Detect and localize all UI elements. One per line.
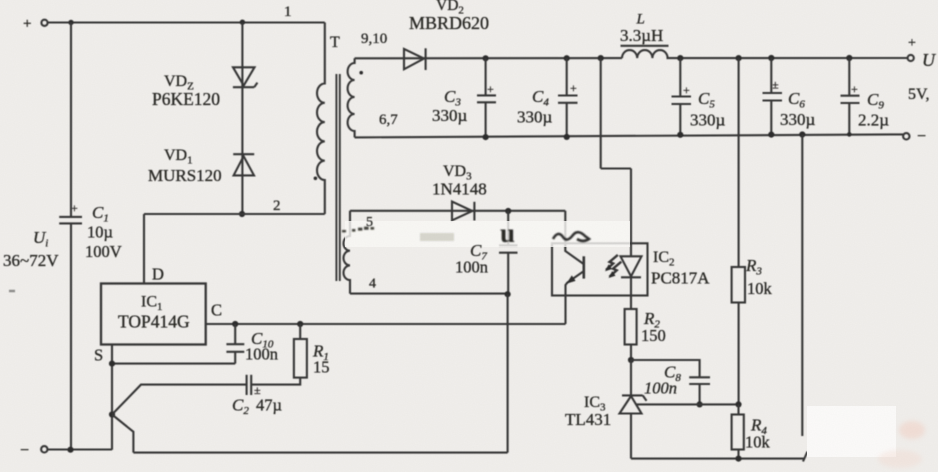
wire: aux bottom (pin 4): [350, 293, 508, 295]
wire: R3 upper vertical (crosses 0V rail): [738, 58, 740, 267]
watermark squiggle near opto: [553, 232, 589, 241]
wire: R4 bottom: [737, 450, 739, 459]
node: feedback tap on +5V rail: [598, 55, 604, 61]
wire: C pin line to opto emitter: [206, 323, 566, 325]
label underline for 3.3uH: [621, 45, 669, 47]
wire: top input rail: [48, 21, 325, 23]
watermark gray blob: [420, 233, 454, 241]
node: C7 bottom / aux return: [505, 291, 511, 297]
inductor L 3.3uH: [622, 50, 668, 58]
wire: output top rail right of L: [667, 57, 908, 59]
wire: R3 to divider node: [738, 303, 740, 405]
wire: node 2 horizontal: [144, 213, 325, 215]
wire: opto LED anode vertical: [630, 169, 632, 257]
terminal: + input circle: [41, 20, 47, 26]
capacitor C8: [689, 376, 710, 378]
zener diode VDZ P6KE120: [241, 23, 243, 155]
node: C5 bottom: [677, 132, 683, 138]
white patch bottom right: [807, 406, 896, 457]
wire: C2 to R1 bottom: [251, 378, 300, 385]
wire: diagonal to C2 line: [112, 385, 247, 415]
wire: feedback vertical from top rail: [600, 58, 602, 168]
watermark dots near pin 5: [342, 227, 374, 233]
node: C4 bottom: [564, 134, 570, 140]
resistor R1 15: [294, 339, 307, 378]
capacitor C3: [485, 58, 487, 95]
capacitor C2 plates: [246, 375, 248, 395]
node: divider node R3/R4: [735, 401, 741, 407]
junction tick at rail end: [803, 452, 808, 462]
wire: S pin vertical: [111, 345, 113, 450]
pink blob 2: [878, 450, 922, 468]
diode VD3 1N4148: [452, 202, 472, 221]
wire: node to C8 top: [631, 360, 700, 377]
wire: TL431 cathode vertical: [630, 360, 632, 395]
transformer secondary winding: [348, 58, 355, 137]
capacitor C7: [507, 211, 509, 245]
wire: TL431 anode to bottom rail: [630, 414, 632, 459]
wire: secondary ground bottom rail: [631, 458, 805, 460]
node: S ground junction: [109, 411, 115, 417]
wire: TL431 ref line: [637, 403, 739, 405]
IC1 TOP414G box: [101, 284, 206, 345]
transformer primary phase dot: [314, 177, 318, 181]
node: ground return on 0V rail: [799, 131, 805, 137]
transformer T primary winding: [317, 23, 325, 215]
diode VD1 MURS120: [233, 153, 254, 155]
node: R4 bottom on rail: [735, 456, 741, 462]
capacitor C10: [234, 324, 236, 344]
opto phototransistor base bar: [582, 256, 585, 278]
terminal: + output circle: [908, 55, 914, 61]
stray mark left margin: [9, 290, 15, 292]
pink blob 1: [899, 421, 925, 439]
opto light arrow 2: [610, 262, 622, 277]
node: C6 top: [768, 55, 774, 61]
wire: output bottom rail: [355, 134, 904, 137]
wire: diagonal to bottom rail: [112, 415, 133, 453]
node: R2 / TL431 cathode: [628, 357, 634, 363]
diode VD2 MBRD620: [404, 49, 424, 69]
opto LED cathode bar: [621, 276, 641, 278]
wire: feedback horizontal to opto LED: [601, 167, 631, 169]
opto LED triangle: [621, 256, 642, 276]
node: input rail / clamp stack: [240, 20, 245, 25]
terminal: - output circle: [903, 133, 909, 139]
node: C8 bottom on ref line: [697, 401, 703, 407]
wire: input left vertical lower (C1 to - rail): [70, 223, 72, 449]
node: C10 top: [232, 321, 238, 327]
capacitor C1 plates: [59, 216, 82, 218]
wire: R2 to node: [630, 345, 632, 361]
node: C3 bottom: [483, 134, 489, 140]
wire: S pin line: [112, 363, 235, 365]
resistor R4 10k: [732, 415, 744, 450]
wire: primary ground riser: [507, 294, 509, 452]
optocoupler IC2 PC817A box: [552, 243, 648, 295]
node: input rail / C1 branch: [68, 20, 73, 25]
node: C6 bottom: [768, 132, 774, 138]
wire: bottom primary rail right part: [133, 452, 507, 454]
wire: D pin vertical: [143, 214, 145, 284]
capacitor C6: [770, 58, 772, 93]
wire: secondary top to VD2: [355, 57, 622, 59]
transformer core lines: [335, 74, 337, 281]
resistor R2 150: [625, 309, 637, 345]
wire: aux top (pin 5) with VD3: [350, 210, 565, 212]
wire: bottom input rail left: [48, 448, 112, 450]
wire: opto collector pin: [565, 211, 583, 264]
node: C9 top: [846, 55, 852, 61]
node: C3 top: [483, 55, 489, 61]
transformer aux winding: [343, 211, 350, 294]
resistor R3 10k: [732, 267, 745, 303]
node: R1 top: [297, 321, 303, 327]
opto emitter arrowhead: [566, 275, 575, 283]
capacitor C5: [679, 58, 681, 96]
node: C9 bottom: [847, 132, 852, 137]
capacitor C4: [566, 58, 568, 95]
watermark white band: [345, 221, 630, 247]
node: S line junction: [109, 361, 115, 367]
node: R3 top on +5V rail: [736, 55, 742, 61]
node: C5 top: [677, 55, 683, 61]
wire: opto LED cathode to R2: [630, 277, 632, 309]
node: bottom rail / input vertical: [67, 447, 73, 453]
capacitor C9: [848, 58, 850, 96]
opto light arrow 1: [606, 255, 618, 270]
paper noise overlay: [0, 0, 1, 1]
node: drain node 2: [239, 211, 245, 217]
shunt regulator IC3 TL431: [622, 394, 643, 396]
transformer secondary phase dot: [359, 71, 363, 75]
wire: opto emitter with arrow: [566, 271, 584, 324]
wire: input left vertical upper (to C1): [70, 23, 72, 217]
wire: ground return vertical: [801, 135, 803, 437]
node: C7 top: [505, 208, 511, 214]
node: C4 top: [564, 55, 570, 61]
terminal: - input circle: [41, 446, 47, 452]
wire: R1 top vertical: [299, 324, 301, 339]
